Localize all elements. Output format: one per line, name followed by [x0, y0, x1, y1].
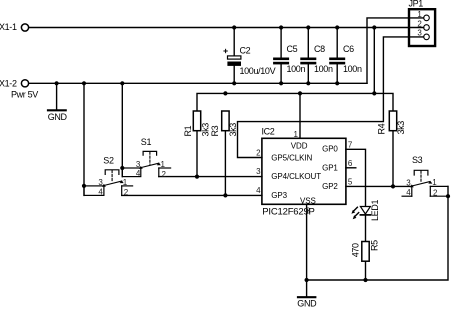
- wire riser top rail to VDD rail: [373, 28, 375, 94]
- connector JP1: [409, 9, 435, 46]
- switch S1: [122, 83, 170, 176]
- svg-text:R1: R1: [183, 125, 193, 136]
- svg-text:S2: S2: [103, 155, 114, 165]
- wire net X1-1 top rail: [29, 27, 424, 29]
- capacitor C5: [273, 28, 289, 84]
- svg-text:LED1: LED1: [370, 200, 380, 221]
- LED LED1: [351, 207, 370, 242]
- wire GP2 pin5 to S3: [346, 185, 412, 187]
- svg-text:GND: GND: [48, 112, 68, 122]
- wire Pwr rail: [29, 82, 367, 84]
- wire GP0 pin7 to LED: [346, 149, 366, 207]
- svg-text:R5: R5: [370, 240, 380, 251]
- svg-text:470: 470: [351, 243, 361, 257]
- svg-text:X1-2: X1-2: [0, 79, 17, 89]
- svg-text:3k3: 3k3: [396, 121, 406, 135]
- svg-text:VSS: VSS: [300, 196, 316, 205]
- switch S3: [402, 170, 448, 196]
- wire VDD rail: [197, 93, 393, 111]
- svg-text:VDD: VDD: [291, 142, 308, 151]
- svg-text:100n: 100n: [343, 64, 362, 74]
- wire GP1 pin6 stub: [346, 167, 356, 169]
- svg-text:GP4/CLKOUT: GP4/CLKOUT: [271, 172, 321, 181]
- svg-text:S1: S1: [141, 137, 152, 147]
- svg-text:GP5/CLKIN: GP5/CLKIN: [271, 153, 312, 162]
- svg-text:R3: R3: [210, 125, 220, 136]
- svg-text:C8: C8: [314, 44, 325, 54]
- svg-text:JP1: JP1: [409, 0, 424, 8]
- wire GP3 line: [122, 194, 262, 196]
- svg-text:GP2: GP2: [322, 182, 338, 191]
- svg-text:100n: 100n: [287, 64, 306, 74]
- resistor R5: [362, 242, 369, 281]
- svg-text:S3: S3: [412, 155, 423, 165]
- svg-text:GP0: GP0: [322, 145, 338, 154]
- svg-text:IC2: IC2: [262, 127, 275, 137]
- wire VSS riser: [306, 204, 308, 280]
- svg-text:C2: C2: [240, 46, 251, 56]
- wire VDD pin riser: [299, 93, 301, 138]
- switch S2: [84, 83, 133, 195]
- svg-text:C6: C6: [343, 44, 354, 54]
- svg-text:Pwr 5V: Pwr 5V: [11, 89, 38, 99]
- wire JP1 pin3 to GP5: [238, 37, 424, 158]
- ground GND2 bar: [298, 296, 315, 298]
- svg-text:R4: R4: [377, 123, 387, 134]
- svg-text:C5: C5: [287, 44, 298, 54]
- resistor R3: [222, 111, 229, 195]
- svg-text:GND: GND: [297, 298, 317, 308]
- wire GP4 line: [159, 176, 262, 178]
- wire JP1 pin1 riser: [367, 18, 424, 83]
- svg-text:3k3: 3k3: [200, 123, 210, 137]
- ground GND1 stub: [56, 83, 58, 110]
- svg-text:100u/10V: 100u/10V: [240, 66, 276, 76]
- svg-text:3k3: 3k3: [228, 123, 238, 137]
- connector X1-1: [21, 24, 28, 31]
- capacitor C8: [300, 28, 316, 84]
- svg-text:100n: 100n: [314, 64, 333, 74]
- svg-text:GP3: GP3: [271, 191, 287, 200]
- wire S3 to GND rail: [307, 186, 448, 280]
- capacitor C2: [224, 28, 241, 84]
- svg-text:X1-1: X1-1: [0, 22, 17, 32]
- resistor R4: [389, 111, 396, 186]
- op IC2 box: [262, 138, 346, 204]
- svg-text:GP1: GP1: [322, 163, 338, 172]
- ground GND1 bar: [48, 109, 66, 111]
- resistor R1: [193, 111, 200, 177]
- capacitor C6: [329, 28, 345, 84]
- connector X1-2: [21, 80, 28, 87]
- ground GND2 stub: [306, 280, 308, 297]
